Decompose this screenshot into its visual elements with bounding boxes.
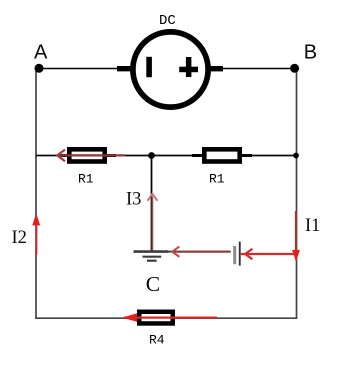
battery BT1 short thick plate xyxy=(233,246,236,264)
wire ground to battery xyxy=(168,251,231,253)
wire DC source to B xyxy=(218,68,295,70)
svg-text:R1: R1 xyxy=(209,172,225,187)
resistor R1 left body xyxy=(67,147,107,164)
resistor R1 right lead stubs xyxy=(192,154,203,157)
svg-text:DC: DC xyxy=(159,13,176,29)
node junction dot middle rail xyxy=(148,152,155,159)
svg-text:R4: R4 xyxy=(149,333,165,348)
DC source U1 circle xyxy=(133,32,208,107)
battery BT1 long thin plate xyxy=(239,242,241,266)
current arrow I1 (red, pointing down on right rail) xyxy=(295,211,297,251)
current arrow battery side (red, pointing left) xyxy=(245,249,252,260)
svg-text:B: B xyxy=(304,41,317,63)
resistor R1 left lead stubs xyxy=(58,154,68,157)
wire I3 branch vertical xyxy=(151,156,153,252)
node junction dot right rail xyxy=(293,153,299,159)
svg-text:I2: I2 xyxy=(12,228,27,248)
DC source U1 lead stub right xyxy=(207,66,223,71)
svg-text:C: C xyxy=(146,272,160,296)
wire battery to right rail (red) xyxy=(241,253,297,255)
current arrow through R4 (red, pointing left) xyxy=(124,317,217,319)
svg-text:A: A xyxy=(34,42,48,64)
wire A to DC source xyxy=(39,68,123,70)
ground symbol at C xyxy=(134,250,169,253)
wire middle rail xyxy=(36,155,297,157)
resistor R1 right body xyxy=(202,147,242,164)
DC source plus terminal xyxy=(179,67,198,73)
svg-text:R1: R1 xyxy=(78,172,94,187)
current arrow I2 (red, pointing up on left rail) xyxy=(35,224,37,255)
current arrow line through R4 white interior xyxy=(137,317,175,319)
resistor R4 body xyxy=(137,310,175,326)
wire bottom rail xyxy=(35,317,297,319)
svg-text:I3: I3 xyxy=(126,190,141,210)
node B dot xyxy=(290,64,299,73)
DC source minus terminal bar xyxy=(146,57,152,77)
svg-text:I1: I1 xyxy=(305,216,320,236)
wire right branch B down xyxy=(296,69,298,320)
DC source U1 lead stub left xyxy=(117,66,134,71)
node A dot xyxy=(35,64,44,73)
current arrow through R1 left (dark red, pointing left) xyxy=(59,154,126,156)
wire left branch A down xyxy=(35,69,37,320)
current arrow I3 (red, pointing up) xyxy=(151,197,153,251)
current arrow ground-battery (dark red, pointing left) xyxy=(174,251,230,253)
